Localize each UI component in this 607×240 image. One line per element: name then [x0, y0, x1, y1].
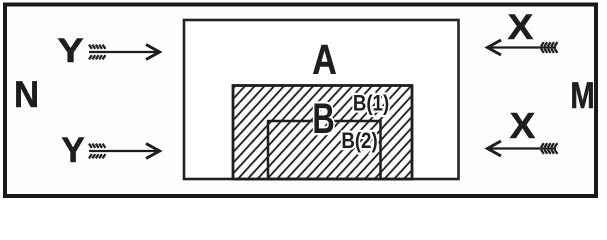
svg-text:A: A — [312, 38, 336, 84]
svg-text:M: M — [570, 76, 594, 117]
svg-text:N: N — [14, 74, 39, 115]
svg-text:Y: Y — [57, 31, 83, 69]
svg-text:Y: Y — [61, 131, 84, 170]
svg-text:X: X — [508, 8, 534, 47]
svg-text:B: B — [312, 94, 334, 142]
svg-text:X: X — [510, 105, 536, 146]
svg-text:B(1): B(1) — [353, 92, 389, 116]
svg-text:B(2): B(2) — [341, 130, 377, 154]
